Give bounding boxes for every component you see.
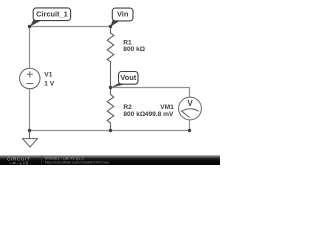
footer bar: [0, 155, 220, 165]
resistor R2: [107, 88, 114, 131]
svg-text:Circuit_1: Circuit_1: [36, 10, 68, 19]
svg-text:1 V: 1 V: [44, 81, 54, 88]
svg-text:499.8 mV: 499.8 mV: [145, 111, 174, 118]
wire: Vout node to voltmeter VM1 top: [111, 88, 190, 98]
node label Vin: [110, 8, 133, 27]
wire: voltmeter VM1 bottom to rail: [189, 120, 191, 131]
svg-text:V: V: [187, 99, 193, 108]
voltmeter VM1: [179, 97, 202, 120]
junction dot: node A (top left): [28, 25, 31, 28]
svg-text:800 kΩ: 800 kΩ: [123, 46, 146, 53]
label R1 value: [123, 40, 146, 53]
svg-text:Vout: Vout: [120, 73, 136, 82]
junction dot: ground node: [28, 129, 31, 132]
footer divider: [41, 156, 43, 164]
svg-text:Vin: Vin: [117, 10, 129, 19]
voltage source V1: [20, 68, 40, 88]
label V1 value: [44, 72, 54, 88]
wire: top horizontal from node A to Vin: [30, 26, 111, 28]
footer logo CircuitLab: [7, 157, 30, 166]
node label Vout: [111, 72, 138, 88]
svg-text:─≕─LAB: ─≕─LAB: [8, 160, 29, 165]
svg-text:800 kΩ: 800 kΩ: [123, 111, 146, 118]
node label Circuit_1: [30, 8, 71, 27]
ground: [23, 131, 38, 148]
wire: left vertical from node A to V1 top: [29, 27, 31, 69]
resistor R1: [107, 27, 114, 88]
wire: bottom rail: [30, 130, 190, 132]
label R2 value: [123, 104, 146, 118]
junction dot: node Vout: [109, 86, 112, 89]
svg-text:http://circuitlab.com/c2sddb2r: http://circuitlab.com/c2sddb2r42max: [45, 160, 109, 165]
svg-text:V1: V1: [44, 72, 52, 79]
wire: V1 bottom to ground rail: [29, 89, 31, 131]
junction dot: R2 bottom on rail: [109, 129, 112, 132]
junction dot: node Vin: [109, 25, 112, 28]
label VM1 value: [145, 104, 174, 118]
junction dot: VM1 bottom on rail: [188, 129, 191, 132]
footer text: [45, 155, 109, 164]
